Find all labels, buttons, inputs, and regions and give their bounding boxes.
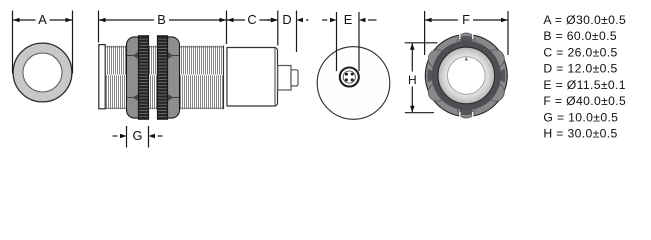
side view threaded barrel lower half — [106, 75, 223, 109]
dimension F arrow left — [425, 18, 458, 23]
hex nut chamfer ring — [438, 47, 495, 104]
rear connector outer ring — [340, 68, 359, 87]
dimension F extension line left — [424, 11, 426, 55]
dimension G extension line left — [126, 126, 128, 148]
rear connector pin 1 — [345, 73, 348, 76]
svg-text:G: G — [133, 128, 143, 143]
svg-text:H = 30.0±0.5: H = 30.0±0.5 — [543, 127, 617, 141]
nut 2 knurled band — [158, 36, 168, 119]
svg-text:F = Ø40.0±0.5: F = Ø40.0±0.5 — [543, 94, 626, 108]
dimension E extension line left — [336, 12, 338, 71]
connector plug tip — [291, 70, 298, 86]
dimension H extension line bottom — [405, 112, 434, 114]
svg-text:E = Ø11.5±0.1: E = Ø11.5±0.1 — [543, 78, 626, 92]
dimension A extension line left — [12, 11, 14, 74]
rear connector pin 4 — [351, 78, 354, 81]
side view front face cap — [99, 45, 105, 109]
nut 1 facet wedge lower — [133, 94, 140, 102]
hex nut rear ring (view F) — [425, 33, 507, 118]
dimension A extension line right — [72, 11, 74, 74]
hex nut bore — [448, 57, 486, 95]
dimension B arrow right — [169, 18, 226, 23]
rear view circle (view E) — [317, 47, 390, 120]
svg-text:B: B — [157, 12, 166, 27]
dimension D outside arrow left — [267, 18, 278, 23]
nut 2 facet wedge lower — [167, 94, 174, 102]
svg-text:A = Ø30.0±0.5: A = Ø30.0±0.5 — [543, 13, 626, 27]
nut 1 facet line lower — [127, 97, 139, 99]
dimension H arrow up — [410, 43, 415, 71]
dimension C arrow right — [260, 18, 278, 23]
svg-text:H: H — [408, 73, 417, 87]
dimension A arrow left — [13, 18, 36, 23]
rear housing end inner line — [274, 48, 276, 106]
nut 2 body — [158, 37, 180, 118]
dimension G extension line right — [148, 126, 150, 148]
front view outer ring (view A) — [13, 43, 72, 102]
side view barrel top edge — [106, 46, 223, 48]
svg-text:C: C — [247, 12, 256, 27]
dimension F extension line right — [507, 11, 509, 55]
dimension C arrow left — [227, 18, 245, 23]
svg-text:A: A — [38, 12, 47, 27]
dimension G outside arrow left — [113, 134, 127, 139]
svg-text:F: F — [462, 12, 470, 27]
side view barrel bottom edge — [106, 108, 223, 110]
dimension F arrow right — [473, 18, 508, 23]
svg-text:G = 10.0±0.5: G = 10.0±0.5 — [543, 110, 618, 124]
svg-text:B = 60.0±0.5: B = 60.0±0.5 — [543, 29, 617, 43]
dimension D outside arrow right — [297, 18, 309, 23]
front view inner bore circle — [23, 53, 62, 92]
nut 1 knurled band — [139, 36, 149, 119]
rear connector pin 3 — [345, 78, 348, 81]
dimension E extension line right — [358, 12, 360, 71]
dimension H extension line top — [405, 42, 438, 44]
rear connector pin 2 — [351, 73, 354, 76]
svg-text:E: E — [344, 12, 353, 27]
rear connector inner ring — [343, 71, 355, 83]
nut 2 facet wedge upper — [167, 52, 174, 60]
nut 1 body — [127, 37, 149, 118]
svg-text:D = 12.0±0.5: D = 12.0±0.5 — [543, 62, 617, 76]
dimension H arrow down — [410, 87, 415, 113]
connector plug base — [278, 66, 291, 91]
dimension G outside arrow right — [149, 134, 163, 139]
svg-text:D: D — [282, 12, 291, 27]
rear housing body — [227, 48, 278, 107]
nut 2 facet line upper — [167, 55, 179, 57]
nut 1 facet line upper — [127, 55, 139, 57]
dimension A arrow right — [50, 18, 73, 23]
dimension D right extension line — [296, 11, 298, 53]
dimension B arrow left — [99, 18, 154, 23]
nut 2 facet line lower — [167, 97, 179, 99]
dimension E outside arrow left — [322, 18, 337, 23]
side view threaded barrel upper half — [106, 46, 223, 75]
nut 1 facet wedge upper — [133, 52, 140, 60]
dimension B extension line left — [98, 11, 100, 43]
svg-text:C = 26.0±0.5: C = 26.0±0.5 — [543, 45, 617, 59]
dimension B / C shared extension line — [226, 11, 228, 45]
side view barrel end line — [223, 46, 225, 110]
dimension E outside arrow right — [359, 18, 377, 23]
dimension C / D shared extension line — [277, 11, 279, 46]
